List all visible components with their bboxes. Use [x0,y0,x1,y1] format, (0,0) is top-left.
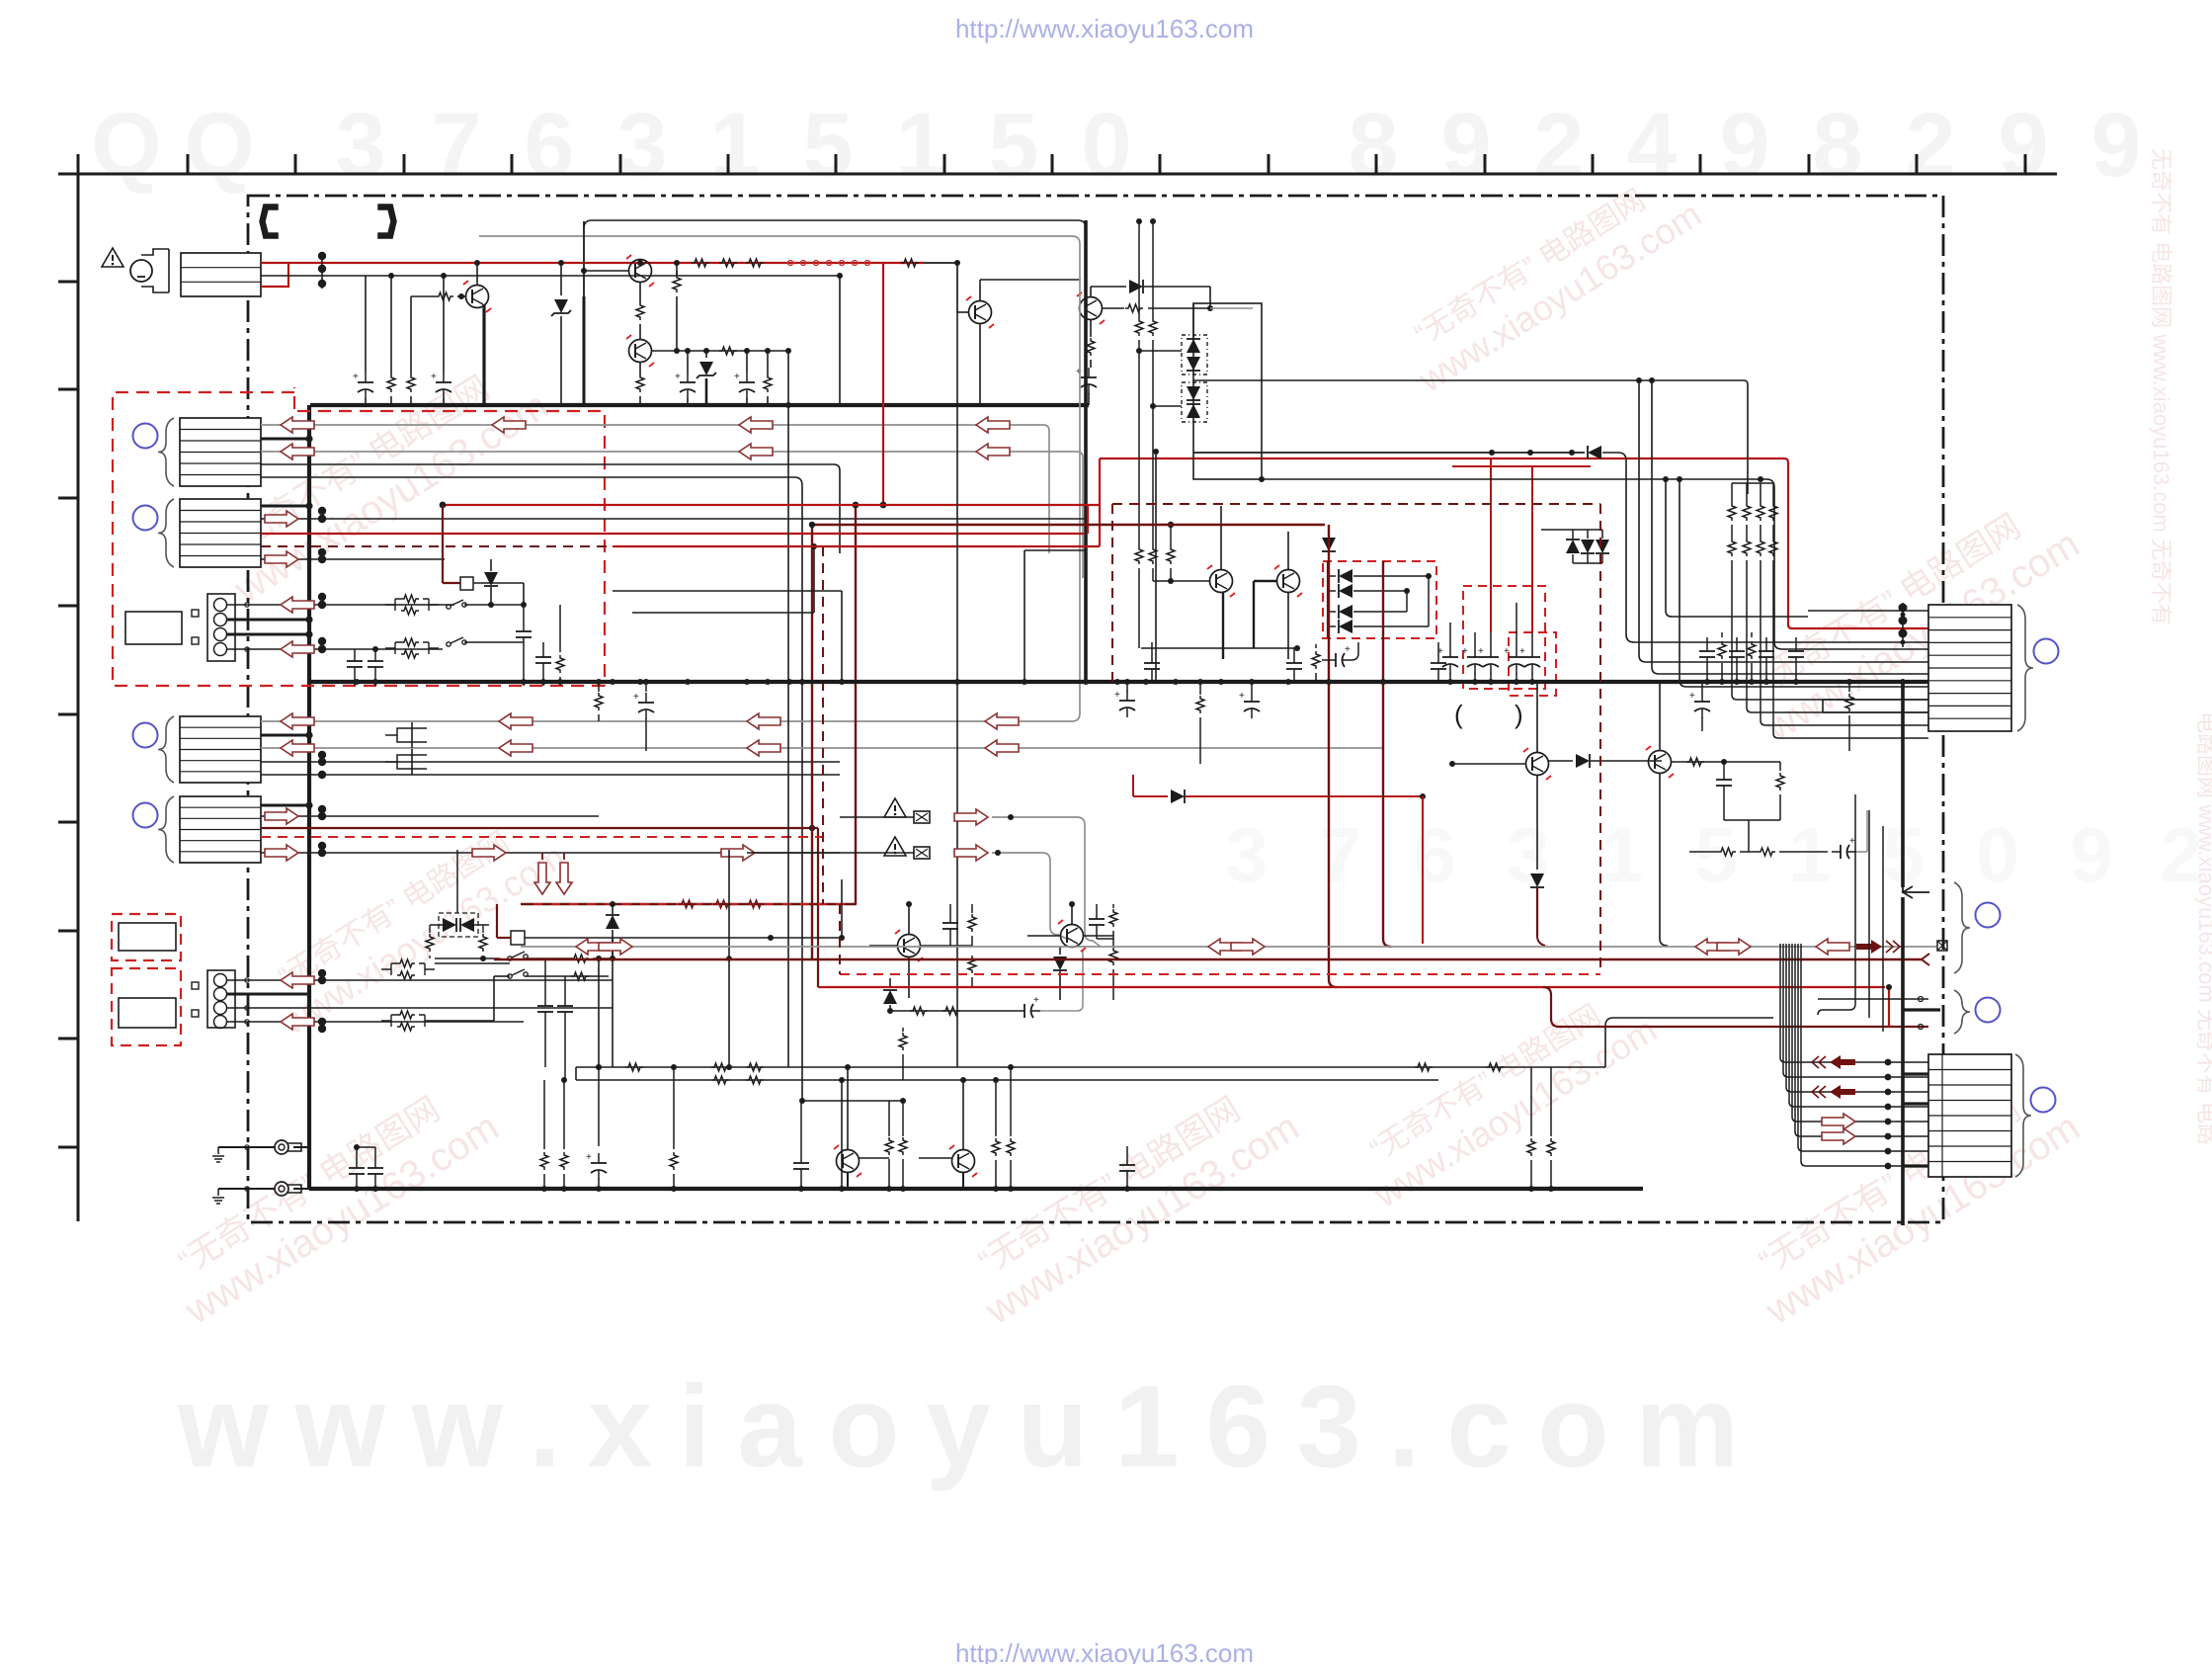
signal vertical x799 [787,351,789,1067]
wire sb2 out1b [593,957,613,959]
svg-text:1: 1 [1788,811,1831,898]
wire CN106 row1 [227,979,613,981]
arrow solid CN204 r2 [1830,1085,1855,1099]
svg-text:http://www.xiaoyu163.com: http://www.xiaoyu163.com [955,14,1254,43]
svg-text:1: 1 [709,95,760,196]
wire CN103 row3 thick [227,633,309,636]
wire Q902 collector [639,259,641,263]
arrow row3 b [739,444,773,459]
wire vertical x449 [443,276,445,373]
wire CN102 row2 [261,518,1089,520]
red line y999 [818,986,1885,988]
resistor pair R125 R126 [397,1011,415,1019]
svg-text:电路图网 www.xiaoyu163.com 无奇不有 电路: 电路图网 www.xiaoyu163.com 无奇不有 电路 [2194,711,2212,1145]
connector CN901 power input [181,253,261,296]
wire col top link [1732,482,1773,484]
arrow y958 d [1231,939,1265,955]
wire y385 tail [1744,380,1748,494]
wire Q912 right link [1083,935,1113,937]
resistor R121 [713,900,731,908]
resistor R131 [711,1063,729,1071]
polarity squares CN103 [192,610,199,617]
wire Q907 collector [1536,682,1538,752]
warning triangle W1 [102,248,123,267]
resistor R142 [673,1067,675,1149]
resistor R165 [1112,939,1114,947]
maroon feed K110 [496,904,498,938]
resistor R906 [719,347,737,355]
left ruler ticks [58,281,78,284]
svg-text:6: 6 [1413,811,1455,898]
wire Q903 emitter [639,363,641,374]
wire x1625 up [1605,1018,1773,1067]
svg-text:9: 9 [2070,811,2112,898]
capacitor C915 [1531,647,1533,657]
red vertical x1509 [1490,458,1492,632]
bus B2 junction dots [354,679,360,685]
filter cap C111 [385,755,427,769]
wire q908 r link [1724,761,1780,763]
wire y389 long [1193,379,1744,381]
wire Q906 collector [1287,532,1289,569]
arrow c4r1 d [985,713,1019,729]
page frame top rule [58,173,2057,176]
wire y830 link [1724,819,1780,821]
resistor R146 [1010,1067,1012,1136]
red branch y472 [1452,465,1591,467]
watermark pink 1 [204,348,555,613]
wire Q901 collector [476,263,478,286]
ground symbol E1 [217,1147,219,1154]
watermark pink 2 [1391,163,1707,401]
capacitor C905 [1090,360,1092,368]
arrow in row1 a [281,417,314,433]
diode D926 [1059,947,1061,955]
wire Q904 base [957,311,968,313]
svg-text:+: + [431,372,437,382]
wire CN102 row1 thick [261,505,309,508]
wire Q904 collector [979,280,981,301]
signal vertical x606b [598,958,600,1067]
top ruler ticks [187,154,190,174]
svg-text:+: + [1345,644,1351,655]
arrow c4r3 d [985,740,1019,756]
component box BD1 inner [119,923,176,951]
gray line y958 [521,946,1936,948]
ground bus B3 [309,1187,1643,1191]
resistor R130 [625,1063,643,1071]
wire Q901 base [411,295,436,297]
capacitor C152 [1765,637,1767,642]
wire db link [1139,350,1182,352]
wire y1114 [802,1100,903,1102]
svg-text:3: 3 [616,95,667,196]
capacitor C911 [1449,623,1451,647]
thick vertical x1926 [1901,682,1905,887]
transistor Q904 [969,301,992,324]
resistor R918 [1152,221,1154,318]
red line y553 [613,545,1100,547]
svg-text:5: 5 [988,95,1038,196]
resistor R140 [543,1080,545,1149]
svg-text:+: + [1849,836,1855,847]
filter cap C110 [385,728,427,742]
maroon dashed vertical x1620 [1599,504,1601,974]
red dashed diode matrix box [1323,561,1436,638]
dual diode box DB2 [1182,382,1207,422]
svg-text:1: 1 [895,95,945,196]
resistor R156 [1686,758,1704,766]
connector CN105 [180,796,261,863]
wire CN201 row10 [1823,699,1928,701]
capacitor C912 [1474,647,1476,657]
arrow c4r1 a [281,713,314,729]
signal vertical x1170 [1155,452,1157,682]
red dashed cap bank box [1463,586,1545,689]
board circle ref CN203 [1976,998,2001,1023]
capacitor C902 [443,373,445,382]
wire y457 diode row [1193,452,1585,454]
capacitor C102 [374,649,376,652]
arrow c5 row5 [265,845,298,861]
watermark pink 8 [1347,978,1663,1216]
svg-text:2: 2 [1905,95,1955,196]
arrow CN103 row4 [281,641,314,657]
resistor R135 [711,1076,729,1084]
resistor column R923 [1772,483,1774,503]
arrow c4r3 b [499,740,533,756]
wire vertical x396 [390,276,392,374]
arrow c4r1 c [747,713,780,729]
capacitor C144 [1327,659,1336,661]
red line y511 [443,504,1101,506]
board circle ref CN201 [2034,639,2059,664]
red dashed box BD2 [112,968,181,1045]
capacitor C132 [598,1067,600,1146]
connector CN104 [180,716,261,783]
wire y656 [1141,647,1297,649]
resistor R919 [1170,525,1172,546]
watermark pink 5 [954,1069,1306,1334]
svg-text:+: + [1239,691,1245,702]
arrow y958 g [1816,939,1849,955]
arrow solid CN204 r1 [1830,1055,1855,1069]
resistor R143 [888,1101,890,1136]
wire CN104 row1 gray [261,720,1072,722]
wire x850 vertical [839,276,841,405]
wire Q911 base [919,1157,951,1159]
wire Q904 emitter [979,324,981,405]
wire CN103 row1 [227,604,454,606]
diode D915 [1566,540,1580,553]
wire y1023 [890,1010,1016,1012]
arrow CN106 row1 [281,972,314,988]
wire x852 down [841,1080,843,1189]
wire sb1 row1 to right [464,604,524,606]
wire lug E1 [218,1146,275,1148]
diode matrix D914 [1328,625,1336,627]
svg-text:+: + [353,372,359,382]
wire Q902 collector resistor [676,271,678,275]
board circle ref CN104 [133,723,158,748]
gray FR1 line [992,817,1101,947]
wire Q911 collector [962,1080,964,1149]
capacitor C913 [1490,647,1492,657]
wire Q905 base [1153,580,1209,582]
diode D101 [490,559,492,571]
red line y464 [1100,458,1784,459]
transistor Q912 [1061,925,1084,948]
fusible resistor FR1 [914,811,930,823]
brace CN105 [158,796,174,863]
wire sb2 out2 [526,975,609,977]
wire CN201 row9 thick [1903,680,1928,684]
diode D925 [889,978,891,988]
wire Q908 collector [1659,682,1661,750]
board circle ref CN204 [2031,1088,2056,1113]
wire Q912 base [1027,935,1060,937]
signal vertical x1659 [1639,380,1928,662]
maroon line y971 [494,958,1922,960]
svg-text:+: + [1519,646,1525,657]
resistor R907 [673,275,681,292]
junction dots CN201 [1902,603,1904,647]
junction dots CN204 [1885,1059,1892,1066]
svg-text:无奇不有 电路图网 www.xiaoyu163.com 无奇: 无奇不有 电路图网 www.xiaoyu163.com 无奇不有 [2149,148,2173,625]
arrow in row1 b [492,417,526,433]
wire Q901 emitter [482,304,485,405]
wire CN102 row5 [261,558,445,560]
svg-text:8: 8 [1348,95,1398,196]
capacitor C104 [542,642,544,648]
resistor pair R101 R102 [401,595,419,603]
arrow y958 solid [1856,940,1882,954]
node dots sb1 [318,601,326,609]
maroon vertical x1400 [1382,561,1384,939]
svg-text:9: 9 [1440,95,1491,196]
resistor R901 [387,374,395,392]
wire CN102 row4 maroon dashed [261,545,823,547]
svg-text:7: 7 [1319,811,1361,898]
svg-text:9: 9 [2090,95,2141,196]
resistor R157 [1779,762,1781,771]
svg-text:+: + [1504,646,1510,657]
arrow c5 row2 [265,808,298,824]
diode D921 [1548,760,1573,762]
capacitor C157 [1832,851,1841,853]
wire sb2 row1 [435,962,510,964]
switch S111 [508,974,512,978]
brace CN204 [2015,1054,2031,1177]
resistor R908 [767,351,769,374]
red drop x1912 [1888,987,1890,1027]
arrow y958 b [599,939,632,955]
wire Q908 base right [1671,761,1724,763]
bus corner x313 [307,405,311,1189]
arrow FR1 [954,809,988,825]
transistor Q905b [1080,297,1103,320]
switch S102 [447,642,451,646]
wire CN101 row2 thick [261,438,309,441]
board circle ref CN101 [133,424,158,449]
arrow out row5 [265,551,298,567]
maroon entry SB1 [442,546,444,583]
red dashed box tuner inner [297,411,605,686]
svg-text:6: 6 [524,95,574,196]
resistor R148 [1550,1067,1552,1136]
wire Q907 emitter [1536,776,1538,870]
resistor column R922 [1760,483,1761,503]
resistor R147 [1530,1067,1532,1136]
resistor column R920 [1731,483,1733,503]
svg-text:+: + [1114,690,1120,701]
capacitor C140 [645,682,647,692]
maroon vertical x822 [811,525,813,959]
svg-text:9: 9 [1719,95,1769,196]
wire CN106 row4 [227,1021,524,1023]
wire x620 down [612,938,614,964]
board outline dash-dot box [248,196,1943,1222]
wire CN103 row4 [227,648,443,650]
wire Q906 emitter [1287,593,1289,659]
resistor R127 [429,925,431,933]
capacitor C150 [1706,637,1708,642]
resistor R909 [901,259,919,267]
red dashed box tuner outer [113,387,605,686]
maroon dashed vertical x833 [822,546,824,904]
resistor R905 [636,374,644,392]
arrow down 1 [541,853,543,860]
capacitor C914 [1516,647,1517,657]
resistor R151 [1199,682,1201,695]
transistor Q908 [1649,751,1672,774]
wire Q908 emitter [1659,774,1661,939]
capacitor C160 [949,904,951,914]
wire Q911 emitter [962,1173,964,1189]
wire x583 link [575,1067,577,1080]
svg-text:+: + [1076,367,1082,377]
wire Q910 base [859,1157,889,1159]
capacitor C130 [356,1147,358,1159]
power bus B1 [310,403,1089,407]
wire CN104 row5 [261,774,840,776]
fusible resistor FR2 [914,847,930,859]
wire Q903 base row [652,350,788,352]
resistor R903 [436,292,453,300]
signal vertical x738 [728,850,730,1067]
svg-text:0: 0 [1976,811,2018,898]
resistor R154 [1751,632,1753,637]
resistor R904 [636,302,644,320]
wire CN105 row2 [261,815,599,817]
board circle ref CN105 [133,803,158,828]
red vertical x894 [882,263,884,505]
arrow CN106 row4 [281,1014,314,1030]
connector CN204 [1928,1054,2011,1177]
connector CN201 [1928,605,2011,731]
wire sb1 row2 to right [464,641,524,643]
svg-text:): ) [1515,700,1523,729]
wire red jog CN901 pin3 [261,264,288,287]
signal line y223 [584,220,1086,228]
wire red vertical x1101 [1087,505,1089,534]
maroon dashed vertical x850b [839,904,841,974]
capacitor C141 [1126,682,1128,692]
thick stub CN203 [1903,1008,1940,1011]
arrow in row1 d [976,417,1010,433]
capacitor C142 [1251,682,1253,692]
board circle ref CN102 [133,506,158,531]
maroon vertical x1345 [1328,525,1330,979]
diode matrix D913 [1328,611,1336,613]
capacitor C146 [1151,642,1153,654]
node junction stack at x326 [321,255,323,289]
maroon vertical x448b [442,505,444,546]
resistor R152 [1315,644,1317,648]
resistor R910 [1090,320,1092,337]
wire Q907 base [1452,763,1525,765]
arrow row3 c [976,444,1010,459]
capacitor C161 [1016,1010,1024,1012]
resistor R158 [1718,848,1736,856]
wire bundle CN204 [1780,944,1928,1062]
wire CN101 row1 gray [261,424,1043,426]
resistor R161 [910,1007,928,1015]
capacitor C901 [365,373,367,382]
wire Q905 collector [1220,506,1222,569]
signal vertical x1037 [1024,550,1025,682]
arrow down 2 [563,853,565,860]
svg-text:4: 4 [1626,95,1677,196]
section label brackets [260,205,278,238]
wire vertical x416 [410,296,412,374]
zener diode D902 [705,351,707,358]
transistor Q906 [1277,570,1300,593]
resistor R150 [598,682,600,692]
wire Q906 base [1254,580,1276,582]
capacitor C101 [354,649,356,652]
thick vertical x1099 [1084,220,1088,682]
maroon diode D931 [1322,538,1336,551]
svg-text:3: 3 [1225,811,1268,898]
signal vertical x969 [956,311,958,1067]
red dash diamonds [788,261,793,266]
wire y457 tail [1602,453,1808,642]
ground symbol E2 [217,1189,219,1196]
resistor R160 [971,904,973,913]
resistor R133 [1415,1063,1433,1071]
warning triangle W2 [884,798,906,817]
wire maroon corner x828 [817,828,819,987]
capacitor C904 [746,351,748,373]
module M101 [125,612,182,644]
wire Q910 emitter [847,1173,849,1189]
wire Q912 top [1071,904,1073,924]
diode D930 [1588,446,1601,459]
red dashed cap sub box [1509,632,1556,696]
capacitor C121 [564,976,566,997]
board circle ref CN202 [1976,903,2001,928]
capacitor C903 [687,351,689,373]
red vertical x1551 [1531,466,1533,632]
warning triangle W3 [884,837,906,856]
resistor R128 [482,925,484,933]
svg-text:+: + [734,372,740,382]
arrow FR2 [954,845,988,861]
wire sb2 row2 [435,1020,494,1022]
wire lug E2 [218,1188,275,1190]
arrow c4r1 b [499,713,533,729]
